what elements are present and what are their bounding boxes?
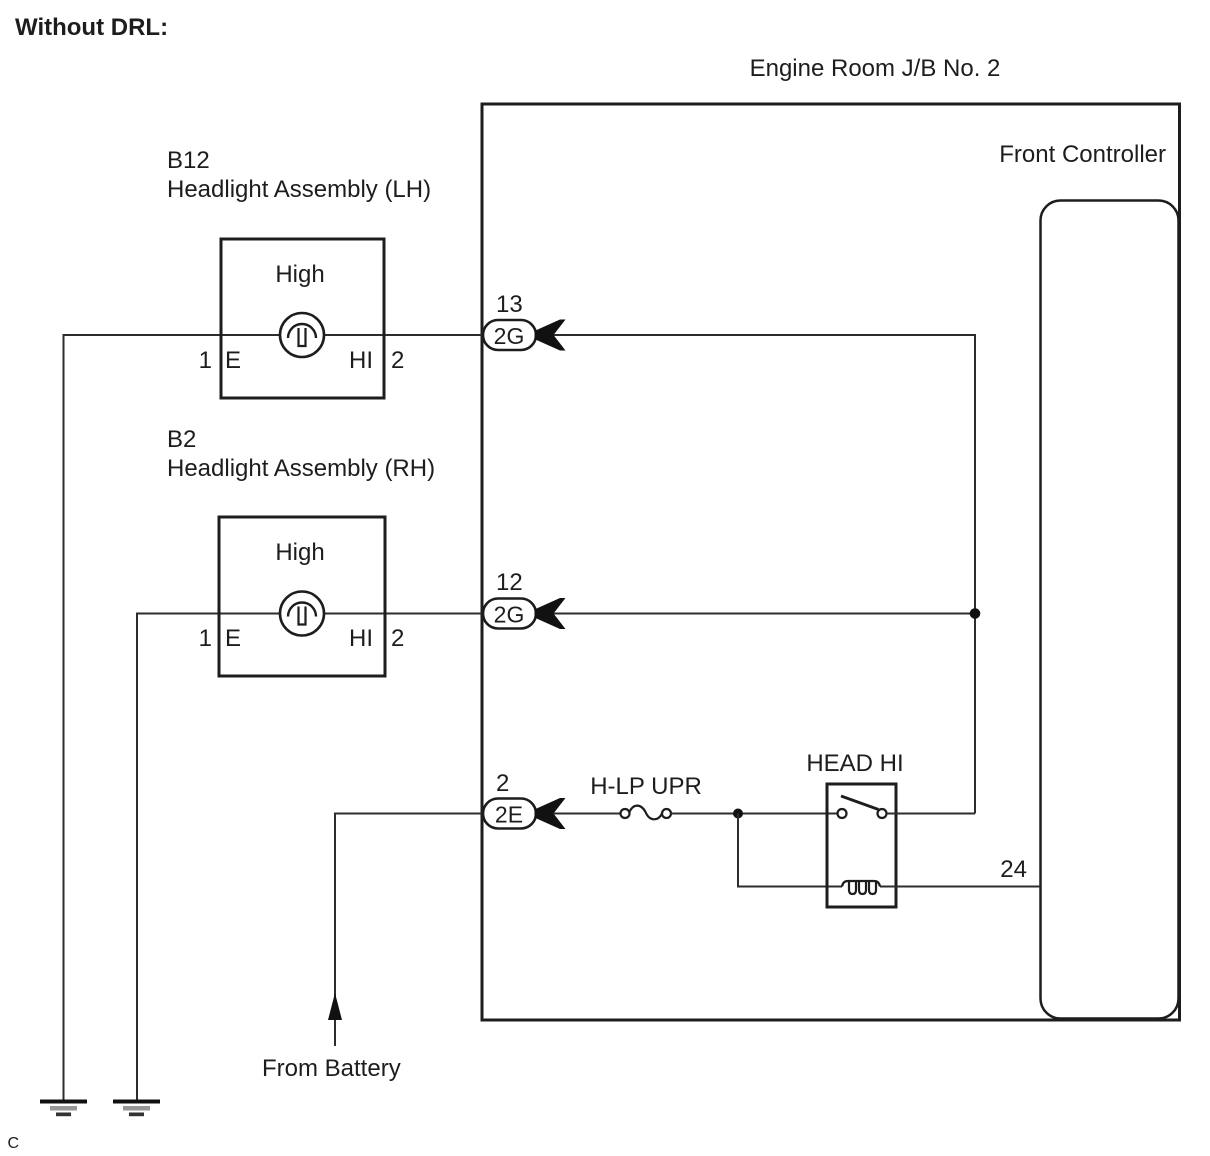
svg-text:12: 12 xyxy=(496,569,523,596)
svg-text:From Battery: From Battery xyxy=(262,1055,401,1082)
relay switch contacts xyxy=(838,809,847,818)
bulb LH (High beam) xyxy=(280,313,324,357)
junction dot before relay xyxy=(733,809,743,819)
wire fuse to relay switch xyxy=(671,813,838,815)
ground RH xyxy=(113,1100,160,1117)
svg-text:High: High xyxy=(275,261,324,288)
svg-text:1: 1 xyxy=(199,625,212,652)
svg-text:24: 24 xyxy=(1000,856,1027,883)
svg-text:E: E xyxy=(225,625,241,652)
svg-text:HEAD HI: HEAD HI xyxy=(806,750,903,777)
wire connector 2 to fuse xyxy=(553,813,621,815)
svg-text:2: 2 xyxy=(391,625,404,652)
svg-text:2E: 2E xyxy=(495,802,523,828)
svg-text:2: 2 xyxy=(496,770,509,797)
wire junction down to relay coil xyxy=(738,814,842,887)
fuse H-LP UPR xyxy=(590,773,702,819)
svg-text:HI: HI xyxy=(349,625,373,652)
relay coil xyxy=(842,881,880,887)
svg-text:Headlight Assembly (LH): Headlight Assembly (LH) xyxy=(167,176,431,203)
svg-text:HI: HI xyxy=(349,347,373,374)
wire relay coil to Front Controller pin 24 xyxy=(880,886,1041,888)
svg-text:B2: B2 xyxy=(167,426,196,453)
svg-text:Without DRL:: Without DRL: xyxy=(15,14,168,41)
wire inside J/B from connector 12 to vertical bus xyxy=(553,613,975,615)
wire RH: pin1 to ground drop and to connector 12 xyxy=(137,614,482,1101)
headlight assembly RH box B2 xyxy=(219,517,385,676)
connector 13 2G xyxy=(483,291,566,351)
svg-text:13: 13 xyxy=(496,291,523,318)
svg-text:High: High xyxy=(275,539,324,566)
svg-text:B12: B12 xyxy=(167,147,210,174)
connector 2 2E xyxy=(483,770,566,829)
wire LH: pin1 to ground drop and to connector 13 xyxy=(64,335,483,1100)
ground LH xyxy=(40,1100,87,1117)
svg-text:E: E xyxy=(225,347,241,374)
svg-text:Headlight Assembly (RH): Headlight Assembly (RH) xyxy=(167,455,435,482)
junction dot at bus and connector 12 wire xyxy=(970,608,981,619)
svg-text:C: C xyxy=(8,1135,20,1152)
svg-text:Front Controller: Front Controller xyxy=(999,141,1166,168)
connector 12 2G xyxy=(483,569,566,629)
wire inside J/B from connector 13 to vertical bus xyxy=(553,335,975,814)
svg-text:2G: 2G xyxy=(494,323,525,349)
relay HEAD HI box xyxy=(827,784,896,907)
svg-text:1: 1 xyxy=(199,347,212,374)
svg-text:2G: 2G xyxy=(494,602,525,628)
svg-text:2: 2 xyxy=(391,347,404,374)
arrow From Battery (pointing up) xyxy=(328,993,342,1020)
svg-text:Engine Room J/B No. 2: Engine Room J/B No. 2 xyxy=(750,55,1001,82)
svg-text:H-LP UPR: H-LP UPR xyxy=(590,773,702,800)
wire relay switch to vertical bus xyxy=(887,813,976,815)
relay switch blade (open) xyxy=(841,796,879,810)
connector U1 Front Controller rounded box xyxy=(1041,201,1179,1019)
junction block Engine Room J/B No. 2 box xyxy=(482,104,1180,1020)
wire From Battery riser to connector 2 xyxy=(335,814,482,1047)
bulb RH (High beam) xyxy=(280,592,324,636)
headlight assembly LH box B12 xyxy=(221,239,384,398)
